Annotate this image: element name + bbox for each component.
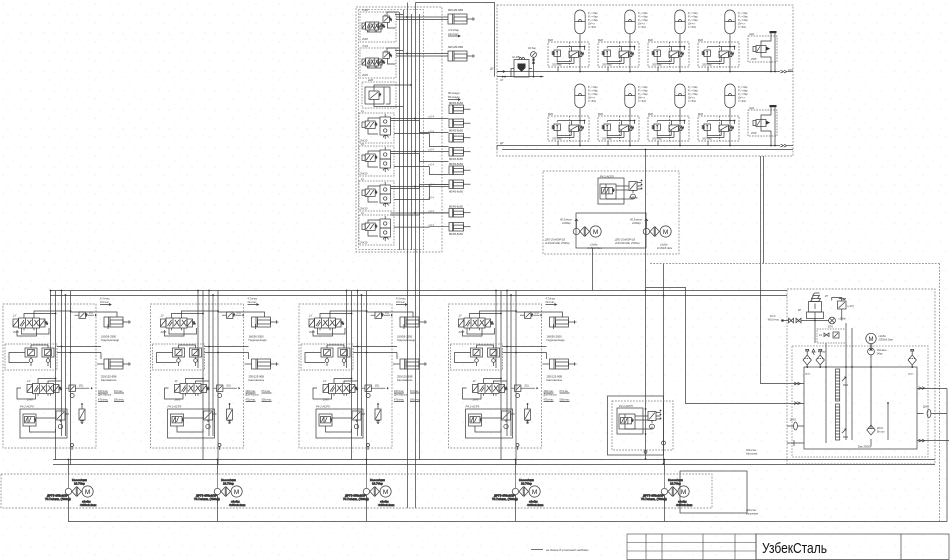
wire riser bundle from block A: [400, 10, 412, 250]
accumulator А2: [625, 10, 649, 42]
wire row2 to edge: [788, 145, 794, 147]
svg-text:с3о8м: с3о8м: [839, 318, 846, 321]
svg-text:8бар: 8бар: [877, 353, 883, 356]
svg-text:350 бар: 350 бар: [602, 137, 612, 141]
svg-text:ІН-РВ: ІН-РВ: [512, 55, 520, 59]
manifold block A enclosure: [356, 7, 442, 252]
junction g5: [414, 151, 416, 153]
junction mark tank left P: [794, 382, 800, 385]
svg-text:V =63л: V =63л: [738, 26, 747, 29]
pump-motor unit Н2: [614, 218, 672, 251]
svg-text:80/45-8х50: 80/45-8х50: [449, 101, 463, 105]
svg-text:90/125-860: 90/125-860: [448, 45, 464, 49]
svg-text:V =63л: V =63л: [738, 100, 747, 103]
note label насосная: [746, 449, 758, 456]
hydraulic block 1: [3, 290, 131, 465]
wire g3 to risers: [386, 85, 411, 107]
svg-text:м20: м20: [368, 78, 373, 82]
svg-text:2W8: 2W8: [361, 73, 368, 77]
decompression unit ЭН2 (1): [748, 31, 777, 72]
recharge pump unit enclosure: [543, 171, 679, 254]
title table grid: [627, 534, 756, 560]
junction dots pump risers: [68, 459, 666, 461]
accumulator А8: [725, 84, 749, 116]
suction header: [68, 495, 947, 522]
svg-text:4с3т63т6Е, 2500ор: 4с3т63т6Е, 2500ор: [545, 241, 570, 245]
svg-text:350 бар: 350 бар: [652, 63, 662, 67]
svg-text:Насосная: Насосная: [746, 453, 758, 456]
cooler TO2: [867, 425, 885, 435]
wire tap g1 to cylinder: [387, 12, 448, 20]
svg-text:4т50о8.3мм: 4т50о8.3мм: [657, 246, 672, 250]
wire riser P2: [415, 3, 417, 509]
recharge pump inner box: [576, 213, 646, 248]
manifold block A inner enclosure: [359, 10, 424, 250]
junction g3: [410, 84, 412, 86]
svg-text:350 бар: 350 бар: [702, 137, 712, 141]
svg-text:80/45-8х50: 80/45-8х50: [449, 129, 463, 133]
wire riser T1: [419, 14, 421, 460]
junction g2: [406, 53, 408, 55]
accumulator station enclosure: [497, 5, 793, 156]
breather filter F3: [908, 349, 916, 368]
svg-text:7х10: 7х10: [362, 44, 369, 48]
station lower enclosure right edge: [939, 264, 941, 522]
pump-motor unit Н1: [544, 218, 602, 251]
bus P main: [50, 290, 787, 292]
svg-text:2W8: 2W8: [750, 57, 757, 61]
svg-text:Z1: Z1: [818, 333, 823, 337]
breather filter F1: [803, 349, 811, 368]
svg-text:машинная: машинная: [746, 513, 759, 516]
svg-text:80/45-8х50: 80/45-8х50: [449, 162, 463, 166]
svg-text:и 0.4: и 0.4: [428, 162, 434, 166]
junctions bus row2: [579, 145, 731, 147]
svg-text:2W10: 2W10: [359, 172, 368, 176]
cylinder Ц5: [449, 134, 471, 143]
svg-text:ЭН2: ЭН2: [749, 32, 755, 36]
svg-text:УзбекСталь: УзбекСталь: [762, 540, 827, 557]
pilot valve group (g3): [362, 78, 396, 108]
hydraulic block 3: [299, 290, 427, 465]
svg-text:Р4.2-АСР5: Р4.2-АСР5: [619, 404, 633, 408]
svg-text:90.5л/мин: 90.5л/мин: [560, 218, 572, 222]
level gauge lower: [836, 404, 840, 440]
motor M tank: [866, 333, 893, 367]
wire riser pump right: [663, 264, 665, 465]
valve group 1У (g1): [360, 8, 396, 42]
valve unit В20 (3): [648, 38, 689, 72]
svg-text:80/45-8х50: 80/45-8х50: [449, 232, 463, 236]
svg-text:80/45-8х50: 80/45-8х50: [449, 157, 463, 161]
tank inner enclosure: [792, 346, 928, 457]
circulation pump tank: [868, 348, 887, 355]
pump-motor unit НС5: [641, 474, 692, 507]
wire tap g4 to cylinders: [391, 119, 449, 147]
svg-text:2W10: 2W10: [359, 241, 368, 245]
wire riser pump block: [645, 150, 647, 460]
pump-motor unit НС2: [194, 474, 245, 507]
note dash: [531, 549, 543, 551]
junction mark row2: [781, 144, 787, 147]
junction dots block5: [645, 149, 665, 465]
pump unit ІН-РВ: [511, 55, 532, 77]
wire tap g7 to cylinders: [391, 213, 449, 227]
svg-text:В20: В20: [698, 38, 703, 42]
tank body: [804, 367, 917, 449]
wire row1 to edge: [788, 71, 794, 73]
svg-text:и 0.4: и 0.4: [428, 129, 434, 133]
svg-text:4с3т63т6Е, 2500ор: 4с3т63т6Е, 2500ор: [615, 241, 640, 245]
make-up pump box: [680, 471, 747, 513]
svg-text:V =63л: V =63л: [588, 100, 597, 103]
hydraulic block 4: [449, 290, 577, 465]
svg-text:V =63л: V =63л: [588, 26, 597, 29]
svg-text:90.5л/мин: 90.5л/мин: [630, 218, 642, 222]
wire riser P1: [407, 3, 409, 509]
junction g7: [414, 212, 416, 214]
note label машинная: [746, 509, 759, 516]
port arrow ДУ left: [490, 67, 505, 73]
breather filter F2: [816, 349, 824, 368]
valve group 1У (g6): [359, 177, 394, 211]
svg-text:350 бар: 350 бар: [702, 63, 712, 67]
svg-text:80/45-8х50: 80/45-8х50: [449, 190, 463, 194]
pump-motor unit НС3: [343, 474, 394, 507]
wire riser pump inner: [592, 248, 594, 291]
wire pump feed line: [495, 54, 544, 77]
bus P row1: [497, 71, 780, 73]
cylinder Ц1 90/125-860: [448, 8, 475, 37]
svg-text:(+40°): (+40°): [848, 305, 855, 308]
bus return lower 2: [53, 464, 935, 466]
junction mark tank left L: [794, 402, 800, 405]
svg-text:М16л/час: М16л/час: [768, 319, 780, 322]
decompression unit ЭН2 (2): [748, 105, 777, 146]
valve unit В20 (1): [548, 38, 589, 72]
cylinder Ц8: [449, 180, 471, 194]
svg-text:дУ: дУ: [500, 78, 503, 82]
svg-text:не более 8 степеней свободы: не более 8 степеней свободы: [546, 548, 589, 552]
accumulator А6: [625, 84, 649, 116]
svg-text:220бар: 220бар: [631, 221, 641, 225]
svg-text:и 0.4: и 0.4: [428, 195, 434, 199]
svg-text:2500о8.3мм: 2500о8.3мм: [878, 338, 894, 342]
svg-text:ДУ65: ДУ65: [790, 419, 796, 422]
hand pump circle: [828, 317, 846, 328]
valve unit В20 (8): [698, 112, 739, 146]
svg-text:ДР2-25х800Р/1В: ДР2-25х800Р/1В: [614, 238, 635, 242]
wire tap g2 to cylinder: [387, 48, 448, 56]
wire tank bottom ports: [787, 440, 804, 446]
svg-text:24л/час: 24л/час: [448, 32, 459, 36]
svg-text:ЭН2: ЭН2: [749, 106, 755, 110]
svg-text:7х10: 7х10: [362, 8, 369, 12]
cylinder Ц9: [449, 204, 471, 217]
wire tank right side: [917, 389, 949, 522]
cylinder Ц7: [449, 162, 471, 175]
wire tap g5 to cylinders: [391, 152, 449, 175]
svg-text:и 0.4: и 0.4: [428, 209, 434, 213]
pump station strip enclosure: [1, 474, 712, 508]
svg-text:ДУ: ДУ: [490, 67, 494, 71]
cylinder Ц10: [449, 223, 471, 237]
pump-motor unit НС1: [45, 474, 96, 507]
svg-text:4т50о8.3мм: 4т50о8.3мм: [587, 246, 602, 250]
svg-text:220бар: 220бар: [561, 221, 571, 225]
junction g4: [414, 118, 416, 120]
svg-text:В20: В20: [548, 112, 553, 116]
svg-text:В20: В20: [698, 112, 703, 116]
svg-text:и 0.4: и 0.4: [428, 114, 434, 118]
svg-text:и 0.4: и 0.4: [428, 147, 434, 151]
valve group 1У (g4): [359, 109, 394, 143]
level mark min: [842, 429, 848, 437]
svg-text:Бак 2500л: Бак 2500л: [858, 445, 872, 449]
svg-text:В20: В20: [598, 38, 603, 42]
breather check on pipe: [812, 349, 826, 355]
svg-text:2W8: 2W8: [750, 131, 757, 135]
svg-text:и 0.4: и 0.4: [428, 182, 434, 186]
junction g6: [414, 186, 416, 188]
svg-text:2W8: 2W8: [361, 37, 368, 41]
svg-text:В20: В20: [648, 38, 653, 42]
valve box Р4.2-АСР5 (block 5): [608, 396, 674, 455]
station lower enclosure: [650, 263, 940, 265]
accumulator А4: [725, 10, 749, 42]
svg-text:В20: В20: [648, 112, 653, 116]
svg-text:350 бар: 350 бар: [552, 63, 562, 67]
junctions bus row1: [579, 71, 731, 73]
svg-text:350 бар: 350 бар: [552, 137, 562, 141]
relief valve stack tank: [798, 293, 829, 343]
junction dots tank: [806, 366, 913, 404]
title block frame: [756, 534, 949, 560]
accumulator А3: [675, 10, 699, 42]
wire pump risers to bus: [68, 460, 664, 475]
gauge 40 бар: [528, 46, 536, 77]
accumulator А7: [675, 84, 699, 116]
tap labels и04: [428, 114, 434, 227]
valve unit В20 (7): [648, 112, 689, 146]
junction dots feed line: [502, 76, 542, 78]
bus T main: [50, 295, 787, 297]
svg-text:с3о8м: с3о8м: [590, 243, 598, 247]
cylinder Ц3 80/45-8х50: [449, 101, 471, 114]
svg-text:ДУ52: ДУ52: [805, 374, 811, 376]
bus T row2: [502, 149, 793, 151]
wire riser station to tank: [761, 156, 805, 384]
suction check valves: [781, 318, 829, 323]
accumulator А1: [575, 10, 599, 42]
svg-text:M: M: [869, 337, 874, 343]
svg-text:⅛=8бар: ⅛=8бар: [629, 197, 638, 200]
valve group 1У (g2): [360, 44, 396, 78]
svg-text:с3о8м: с3о8м: [879, 334, 887, 338]
port ДУ65 left: [787, 419, 804, 431]
suction pipes in tank: [826, 323, 888, 446]
wire tap g6 to cylinders: [391, 185, 449, 200]
port ДУ65 right: [923, 406, 931, 418]
cylinder Ц6: [449, 148, 471, 162]
flow note for small cylinders: [448, 91, 460, 101]
svg-text:В20: В20: [548, 38, 553, 42]
svg-text:40 бар: 40 бар: [528, 46, 536, 50]
filter unit Z1: [817, 329, 846, 343]
wire to hydro station: [416, 3, 495, 55]
svg-text:2W10: 2W10: [359, 207, 368, 211]
junction g1: [406, 16, 408, 18]
cylinder Ц2 90/125-860: [448, 45, 475, 61]
bus L drain: [646, 288, 805, 404]
svg-text:с3о8м: с3о8м: [660, 243, 668, 247]
valve unit В20 (2): [598, 38, 639, 72]
port label ДУ bottom left: [497, 141, 504, 150]
pump-motor unit НС4: [492, 474, 543, 507]
junction mark tank right: [919, 387, 925, 390]
svg-text:V =63л: V =63л: [688, 26, 697, 29]
valve unit В20 (5): [548, 112, 589, 146]
valve assembly Р4.2-АСР5 (station): [598, 175, 642, 205]
tank unit enclosure: [787, 289, 935, 464]
svg-text:и 0.4: и 0.4: [428, 223, 434, 227]
svg-text:ДУ65: ДУ65: [923, 406, 929, 409]
level mark max: [842, 377, 848, 385]
svg-text:350 бар: 350 бар: [602, 63, 612, 67]
svg-text:80/45-8х50: 80/45-8х50: [449, 204, 463, 208]
thermo valve +40C: [832, 298, 855, 321]
junction mark row1: [781, 70, 787, 73]
cylinder Ц4: [449, 119, 471, 133]
svg-text:V =63л: V =63л: [638, 26, 647, 29]
level gauge upper: [836, 369, 840, 401]
svg-text:ДУ: ДУ: [500, 141, 504, 145]
accumulator А5: [575, 84, 599, 116]
svg-text:ДР2-25х800Р/1В: ДР2-25х800Р/1В: [544, 238, 565, 242]
valve group 1У (g5): [359, 142, 394, 176]
suction source label: [768, 315, 780, 322]
svg-text:V =63л: V =63л: [688, 100, 697, 103]
svg-text:Вп.пол: Вп.пол: [877, 431, 885, 434]
bus P row2: [497, 145, 780, 147]
svg-text:В20: В20: [598, 112, 603, 116]
bus return lower 1: [53, 459, 935, 461]
junction mark tank right low: [919, 439, 925, 442]
wire riser station to tank 2: [763, 156, 765, 264]
valve unit В20 (6): [598, 112, 639, 146]
valve unit В20 (4): [698, 38, 739, 72]
svg-text:V =63л: V =63л: [638, 100, 647, 103]
svg-text:90/125-860: 90/125-860: [448, 8, 464, 12]
svg-text:ДУ32: ДУ32: [908, 374, 914, 376]
valve group 1У (g7): [359, 211, 394, 245]
hydraulic block 2: [151, 290, 279, 465]
svg-text:350 бар: 350 бар: [652, 137, 662, 141]
